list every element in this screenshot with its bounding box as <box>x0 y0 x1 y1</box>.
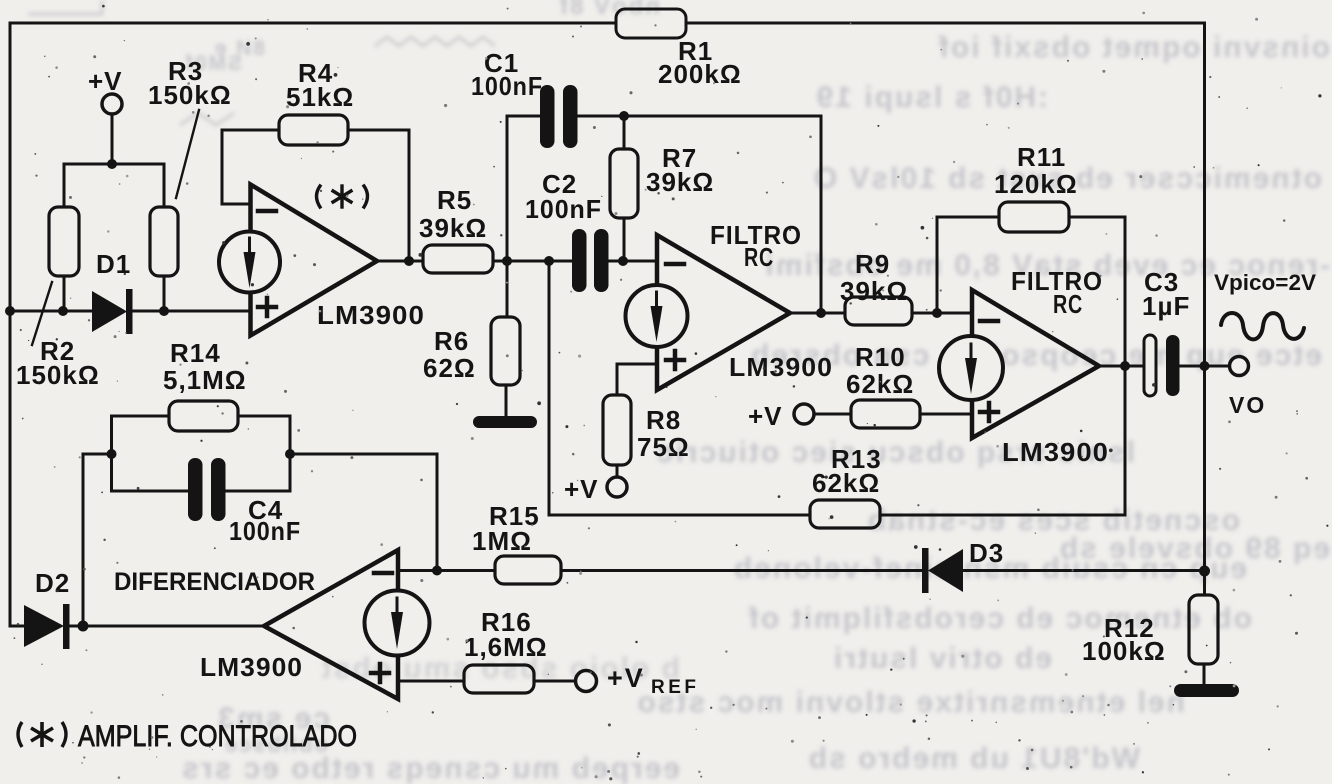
wire top feedback rail right of R1 down right side <box>686 23 1205 571</box>
svg-text:51kΩ: 51kΩ <box>286 82 354 112</box>
wire +V to R10 <box>814 413 851 416</box>
svg-text:RC: RC <box>1053 289 1083 319</box>
svg-text:62kΩ: 62kΩ <box>812 468 880 498</box>
wire +V stem <box>111 114 114 164</box>
terminal VO <box>1230 357 1249 376</box>
resistor R13 <box>810 500 880 528</box>
svg-text:120kΩ: 120kΩ <box>994 169 1078 199</box>
wire R13 branch down from main rail <box>549 261 810 515</box>
caption (*) AMPLIF. CONTROLADO <box>18 720 357 753</box>
node junction U1 output <box>404 256 414 266</box>
svg-text:R8: R8 <box>646 405 681 435</box>
svg-text:VO: VO <box>1229 392 1266 418</box>
wire R7 leads <box>623 116 626 149</box>
svg-text:R14: R14 <box>170 338 221 368</box>
svg-text:LM3900: LM3900 <box>317 300 425 330</box>
node junction U2 output <box>816 308 826 318</box>
op-amp U3 LM3900 (FILTRO RC) <box>972 290 1099 438</box>
node junction left rail / input rail <box>5 306 15 316</box>
svg-text:1µF: 1µF <box>1142 291 1190 321</box>
resistor R10 <box>851 400 920 428</box>
wire R11 branch <box>937 217 999 313</box>
wire right rail to R12 <box>1203 571 1206 595</box>
wire U2 plus input to R8 <box>617 364 657 395</box>
node junction C2/R7 bottom <box>618 256 628 266</box>
resistor R6 <box>491 317 520 385</box>
current source (Norton input) of U1 <box>219 232 280 293</box>
terminal +V (below R8) <box>607 477 627 497</box>
svg-text:100nF: 100nF <box>229 516 301 546</box>
wire C1 right to R7 top node <box>577 115 624 118</box>
op-amp U4 LM3900 (DIFERENCIADOR) <box>264 550 398 699</box>
wire R16 to +VREF terminal <box>534 680 575 683</box>
svg-text:LM3900: LM3900 <box>200 652 303 682</box>
resistor R7 <box>610 149 638 218</box>
capacitor C1 <box>540 85 578 148</box>
wire R14 right side of loop <box>225 416 290 491</box>
wire U1 output to R5 <box>377 260 423 263</box>
wire R9 to U3 minus input <box>912 312 972 315</box>
resistor R4 <box>279 115 348 145</box>
svg-text:R6: R6 <box>434 326 469 356</box>
svg-text:eb otriv lsutri: eb otriv lsutri <box>832 642 1052 675</box>
svg-text:nel etnemsnritxe stlovni moc s: nel etnemsnritxe stlovni moc stso <box>636 686 1185 719</box>
faint zigzag show-through (top) <box>28 0 495 125</box>
node junction U4 minus / R14 loop <box>432 566 442 576</box>
ground (below R6) <box>473 416 537 428</box>
wire D3 to right rail <box>963 569 1205 572</box>
svg-text:LM3900: LM3900 <box>729 352 833 382</box>
current source (Norton input) of U3 <box>939 336 1003 400</box>
node junction R5/C1 branch <box>502 256 512 266</box>
resistor R12 <box>1189 595 1218 664</box>
svg-text:Vpico=2V: Vpico=2V <box>1214 270 1316 295</box>
svg-text:Wd'8U1 ub mebro sb: Wd'8U1 ub mebro sb <box>807 742 1140 775</box>
svg-text:+V: +V <box>88 66 123 96</box>
svg-text:200kΩ: 200kΩ <box>658 59 742 89</box>
node junction R9/R11 branch <box>932 308 942 318</box>
wire C2 right to U2 minus input <box>608 260 657 263</box>
wire R15 to D3 <box>561 569 923 572</box>
leader line R2 label <box>32 282 52 345</box>
svg-text:39kΩ: 39kΩ <box>646 167 714 197</box>
wire C1 branch up <box>507 116 540 261</box>
terminal +VREF <box>576 671 597 692</box>
node junction R14/C4 left <box>107 449 117 459</box>
wire D2 junction / R14 C4 left node <box>83 454 111 626</box>
op-amp U1 LM3900 (controlled amplifier) <box>251 185 378 336</box>
svg-text:100nF: 100nF <box>525 194 602 224</box>
svg-text:LM3900: LM3900 <box>1002 437 1109 467</box>
svg-text:D3: D3 <box>969 538 1004 568</box>
wire R4 right lead down to U1 output <box>348 130 409 261</box>
node junction R2 bottom <box>58 306 68 316</box>
svg-text:39kΩ: 39kΩ <box>419 213 487 243</box>
wire R6 to ground <box>505 385 508 418</box>
svg-text:R10: R10 <box>855 342 906 372</box>
capacitor C2 <box>572 229 609 292</box>
resistor R3 <box>150 207 178 276</box>
leader line R3 label <box>176 110 199 198</box>
svg-text:REF: REF <box>651 677 696 698</box>
svg-text:5,1MΩ: 5,1MΩ <box>163 365 247 395</box>
wire R10 to U3 plus input <box>920 413 972 416</box>
resistor R16 <box>464 665 534 693</box>
op-amp U2 LM3900 (FILTRO RC) <box>657 235 790 390</box>
svg-text:oscnetib sces ec-stnab: oscnetib sces ec-stnab <box>866 504 1240 537</box>
resistor R8 <box>603 395 631 465</box>
wire U3 output to C3 <box>1099 365 1145 368</box>
asterisk mark (*) on U1 <box>317 186 368 207</box>
sine wave symbol (Vpico) <box>1221 313 1304 339</box>
svg-text:100kΩ: 100kΩ <box>1082 636 1166 666</box>
wire R12 to ground <box>1203 664 1206 686</box>
wire bottom-left rail to D2 <box>10 625 24 628</box>
svg-text:150kΩ: 150kΩ <box>16 360 100 390</box>
svg-text:150kΩ: 150kΩ <box>148 80 232 110</box>
svg-text:+V: +V <box>564 474 599 504</box>
current source (Norton input) of U2 <box>626 285 688 347</box>
terminal +V (left) <box>102 94 122 114</box>
wire top feedback rail left of R1 <box>10 23 616 626</box>
resistor R5 <box>423 245 493 273</box>
wire U4 plus input to R16 <box>398 680 464 683</box>
node junction R14/C4 right <box>285 449 295 459</box>
svg-text:oinsvni oqmet obsxif iof: oinsvni oqmet obsxif iof <box>937 31 1330 64</box>
svg-text:62kΩ: 62kΩ <box>846 369 914 399</box>
resistor R11 <box>999 202 1069 232</box>
svg-text:AMPLIF. CONTROLADO: AMPLIF. CONTROLADO <box>78 720 357 753</box>
terminal +V (left of R10) <box>794 404 814 424</box>
wire U2 output to R9 <box>790 312 845 315</box>
wire R7 bottom lead <box>623 218 626 261</box>
current source (Norton input) of U4 <box>365 591 430 656</box>
resistor R15 <box>495 556 561 584</box>
wire R7 top node to U2 output <box>624 116 821 313</box>
ground (below R12) <box>1174 684 1239 697</box>
diode D3 <box>922 548 963 593</box>
svg-text:eerpeb mu csneqs retbo ec srs: eerpeb mu csneqs retbo ec srs <box>180 752 680 784</box>
svg-text:100nF: 100nF <box>471 71 543 101</box>
node junction D2 cathode <box>78 621 89 632</box>
resistor R14 <box>169 401 238 431</box>
wire R11 right lead down to U3 output node <box>1069 217 1125 366</box>
capacitor C3 (electrolytic) <box>1144 335 1180 396</box>
diode D1 <box>92 289 133 334</box>
wire R13 to U3 output node <box>880 366 1125 515</box>
svg-text:+V: +V <box>607 663 645 693</box>
resistor R9 <box>845 297 912 325</box>
wire C4 left to left node <box>112 490 189 493</box>
capacitor C4 <box>188 458 226 521</box>
wire R5 to C2 <box>493 260 572 263</box>
wire R14/C4 loop <box>112 416 170 491</box>
wire U4 minus input to R15 and D3 <box>398 569 495 572</box>
svg-text:39kΩ: 39kΩ <box>840 276 908 306</box>
diode D2 <box>24 604 70 649</box>
resistor R2 <box>49 207 79 276</box>
svg-text::H0f s lsupi 19: :H0f s lsupi 19 <box>815 81 1048 114</box>
svg-text:RC: RC <box>744 242 774 272</box>
svg-text:D2: D2 <box>35 568 70 598</box>
wire upper-left bias rail y=164 <box>64 164 164 207</box>
svg-text:D1: D1 <box>96 249 131 279</box>
svg-text:R5: R5 <box>437 185 472 215</box>
wire main input rail y=311 <box>10 310 92 313</box>
svg-text:1MΩ: 1MΩ <box>472 526 532 556</box>
resistor R1 <box>616 9 686 38</box>
wire R2 bottom lead <box>63 276 66 311</box>
svg-text:DIFERENCIADOR: DIFERENCIADOR <box>114 568 315 596</box>
node junction R3 bottom <box>159 306 169 316</box>
node junction U3 output <box>1120 361 1130 371</box>
wire right node to U4 minus input branch <box>290 454 437 570</box>
svg-text:R11: R11 <box>1017 142 1066 172</box>
wire R6 branch <box>506 261 509 317</box>
wire R3 bottom lead <box>163 276 166 311</box>
node junction R5/R13 branch <box>544 256 554 266</box>
svg-text:62Ω: 62Ω <box>423 353 476 383</box>
node junction D3 / right rail / R12 <box>1199 566 1210 577</box>
wire D1 cathode to op-amp U1 plus input <box>133 310 250 313</box>
svg-text:R9: R9 <box>855 249 890 279</box>
node junction C1/R7 top <box>619 111 629 121</box>
wire C3 to VO terminal <box>1179 365 1229 368</box>
node junction VO / right rail <box>1200 361 1210 371</box>
svg-text:1,6MΩ: 1,6MΩ <box>464 632 548 662</box>
svg-text:75Ω: 75Ω <box>637 432 690 462</box>
svg-text:+V: +V <box>748 401 783 431</box>
wire D2 to U4 apex <box>70 625 264 628</box>
wire R4 left lead to U1 minus input <box>222 130 279 204</box>
svg-text:ob etnemoc eb cerobsfilqmit of: ob etnemoc eb cerobsfilqmit of <box>747 602 1252 635</box>
wire R8 to +V terminal <box>616 465 619 477</box>
node junction +V / bias rail <box>107 159 117 169</box>
